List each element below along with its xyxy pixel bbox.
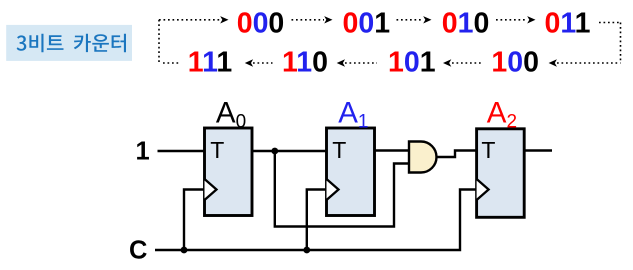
svg-text:C: C: [129, 237, 147, 265]
svg-text:000: 000: [237, 8, 285, 40]
svg-text:A2: A2: [487, 96, 517, 132]
svg-text:001: 001: [343, 8, 391, 40]
svg-text:110: 110: [282, 47, 328, 79]
svg-text:111: 111: [188, 47, 233, 79]
svg-text:A1: A1: [338, 96, 368, 132]
svg-text:011: 011: [545, 8, 591, 40]
svg-text:010: 010: [442, 8, 490, 40]
svg-text:1: 1: [136, 138, 150, 166]
svg-text:T: T: [481, 137, 495, 163]
svg-text:100: 100: [491, 47, 539, 79]
svg-text:A0: A0: [216, 96, 246, 132]
svg-text:T: T: [210, 137, 224, 163]
svg-text:101: 101: [388, 47, 436, 79]
svg-text:T: T: [332, 137, 346, 163]
